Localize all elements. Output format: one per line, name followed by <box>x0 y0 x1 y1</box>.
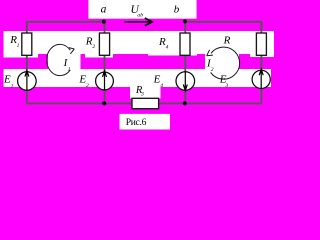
svg-text:1: 1 <box>17 43 20 49</box>
svg-text:1: 1 <box>68 66 71 72</box>
svg-text:Рис.6: Рис.6 <box>126 117 147 128</box>
svg-text:R: R <box>223 35 231 47</box>
svg-text:a: a <box>101 4 107 16</box>
svg-text:2: 2 <box>211 67 214 73</box>
svg-text:ab: ab <box>137 12 143 18</box>
svg-text:3: 3 <box>224 83 228 89</box>
svg-text:R: R <box>135 85 143 96</box>
svg-text:4: 4 <box>160 83 163 89</box>
svg-text:2: 2 <box>86 83 89 89</box>
svg-text:b: b <box>174 3 180 15</box>
svg-text:2: 2 <box>92 44 95 50</box>
svg-text:4: 4 <box>166 44 169 50</box>
svg-text:1: 1 <box>11 83 14 89</box>
